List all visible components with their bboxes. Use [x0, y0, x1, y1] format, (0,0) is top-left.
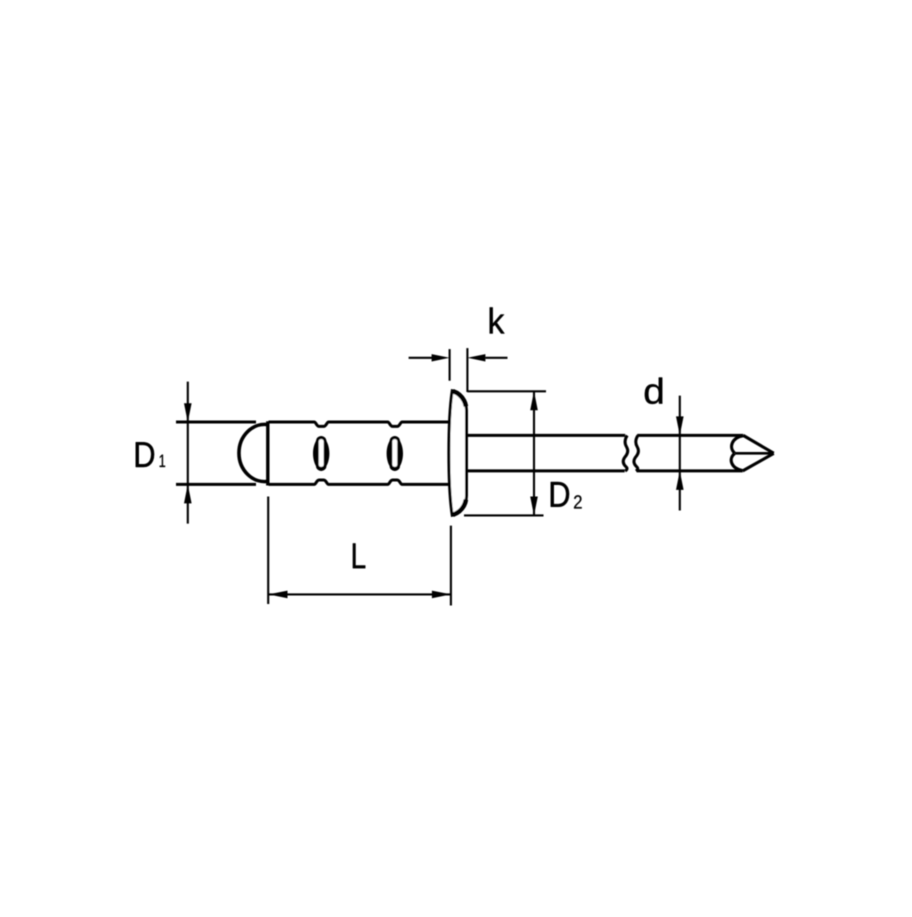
dimension D1 arrow down	[184, 403, 192, 422]
label D1	[136, 442, 165, 467]
dimension d arrow up	[676, 471, 684, 490]
label d	[645, 378, 662, 404]
L extension line left	[267, 497, 269, 605]
dimension L arrow left	[269, 591, 288, 599]
break line left	[623, 435, 628, 471]
dimension D2 arrow down	[530, 497, 538, 516]
dimension D2 arrow up	[530, 391, 538, 410]
dimension D2 line	[533, 391, 535, 515]
flange bottom extension line	[464, 514, 544, 516]
dimension D1 arrow up	[184, 484, 192, 503]
dimension k right line	[485, 357, 507, 359]
mandrel tip upper lobe	[732, 436, 744, 453]
flange top extension line	[467, 390, 546, 392]
dimension D1 line	[187, 382, 189, 524]
rivet body top edge with grip notches	[176, 422, 449, 426]
mandrel tip lower lobe	[731, 454, 742, 471]
mandrel tip center line	[735, 452, 774, 455]
rivet body bottom edge with grip notches	[176, 480, 449, 484]
k extension line right	[466, 348, 468, 392]
slot 1 (left body opening)	[313, 436, 329, 471]
mandrel tip lower diagonal	[743, 453, 774, 471]
L extension line right	[450, 526, 452, 606]
slot 2 (right body opening)	[387, 436, 403, 471]
label L	[353, 543, 365, 568]
flange top shoulder (thick shading)	[453, 391, 466, 406]
dome head flat face	[266, 421, 269, 485]
mandrel tip upper diagonal	[743, 435, 774, 453]
label D2	[551, 482, 582, 508]
dimension L arrow right	[432, 591, 451, 599]
mandrel stem bottom edge	[467, 469, 743, 472]
flange bottom shoulder (thick shading)	[453, 500, 466, 515]
break line right	[634, 435, 639, 471]
k extension line left	[449, 349, 451, 381]
flange (large head) outline	[449, 391, 467, 516]
dome head arc	[239, 424, 268, 481]
dimension d line	[679, 396, 681, 511]
dimension k left arrow (points right)	[432, 354, 450, 361]
mandrel stem top edge	[467, 434, 744, 437]
dimension d arrow down	[676, 416, 684, 435]
dimension L line	[269, 593, 451, 595]
label k	[490, 307, 505, 333]
dimension k right arrow (points left)	[467, 354, 485, 361]
dimension k left line	[409, 357, 433, 359]
